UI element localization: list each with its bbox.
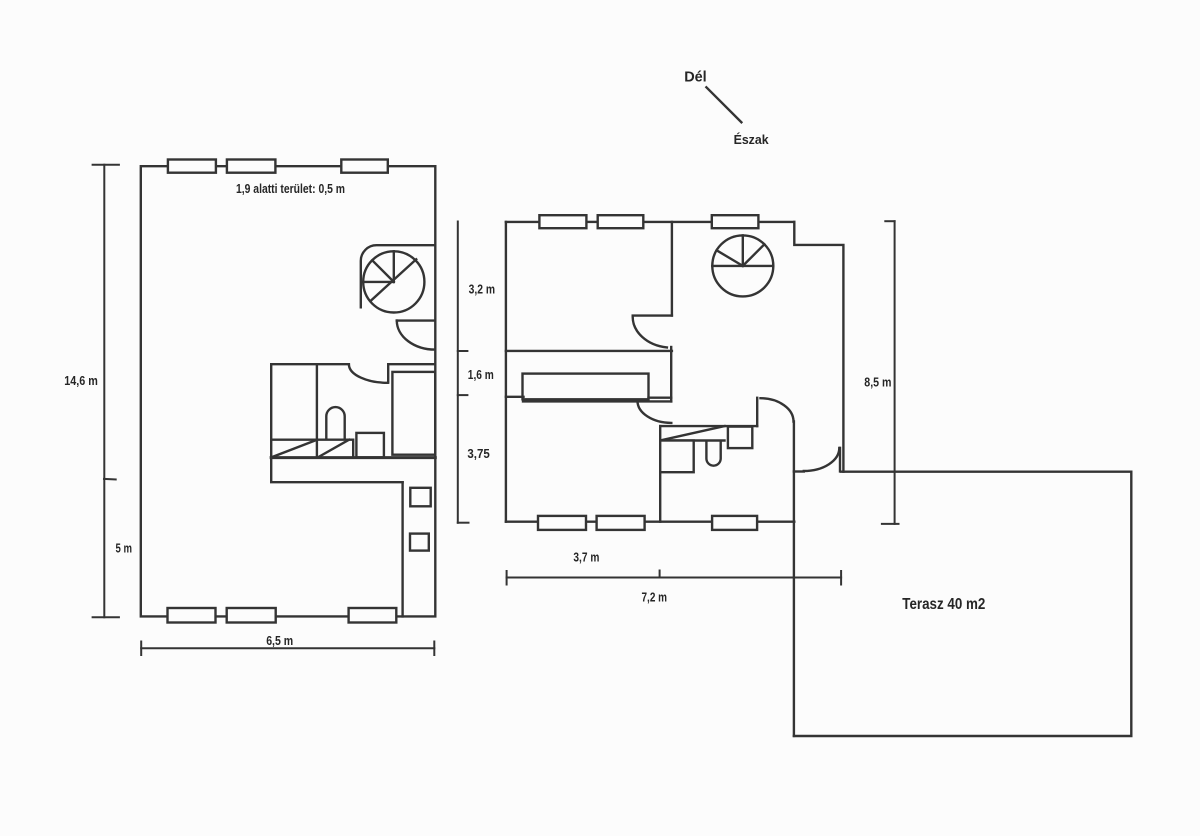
left plan outer wall [141, 166, 436, 616]
svg-text:7,2 m: 7,2 m [642, 591, 668, 605]
bathroom door leaf [387, 364, 389, 382]
dimension tick middle slanted [104, 478, 116, 481]
dimension line 6,5 m [141, 647, 434, 649]
dimension tick 7,2 right [840, 571, 842, 585]
terrace door stub [794, 470, 804, 472]
kitchen shelf line [660, 439, 724, 441]
hall wall horizontal [271, 481, 402, 483]
window top-right W1 [539, 215, 586, 228]
right plan top wall segment 1 [506, 221, 540, 223]
bathroom door arc [349, 365, 388, 383]
dimension line right of left plan [457, 222, 459, 523]
right plan top wall segment 2 [586, 221, 597, 223]
spiral stair circle upper plan [363, 251, 424, 312]
stair diameter diagonal [371, 259, 416, 300]
kitchen door arc [638, 401, 672, 423]
wardrobe long rectangle [523, 374, 649, 400]
svg-text:5 m: 5 m [116, 542, 133, 556]
bathroom top wall right segment [388, 363, 435, 365]
terrace door leaf [839, 448, 841, 472]
wall lower line bedroom top [523, 400, 671, 402]
compass line Dél-Észak [706, 87, 741, 122]
window bottom-right W1 [538, 516, 586, 530]
svg-text:Dél: Dél [684, 69, 707, 86]
interior wall vertical living-bedroom [670, 347, 672, 401]
wall stub left of wardrobe [506, 396, 524, 398]
dimension tick 8,5 bottom [882, 523, 899, 525]
window top-left W2 [227, 160, 276, 173]
stair spoke up-left [372, 260, 394, 282]
dimension tick 8,5 top [885, 220, 894, 222]
svg-text:Észak: Észak [734, 132, 770, 147]
stair enclosure wall upper plan [361, 245, 436, 307]
right wall long vertical [793, 422, 795, 736]
hall wall vertical [401, 482, 403, 616]
window top-right W3 [712, 215, 759, 228]
svg-text:3,75: 3,75 [467, 447, 489, 461]
stair spoke left [363, 281, 394, 283]
window bottom-left W6 [349, 608, 397, 623]
interior wall stub horizontal [633, 314, 672, 316]
right plan left wall [505, 222, 507, 522]
bathroom left wall [270, 364, 272, 482]
dimension tick 3,7 middle [659, 571, 661, 578]
dimension line 14,6 m [103, 165, 105, 618]
stair horizontal diameter lower plan [712, 265, 773, 267]
wall segment right of wardrobe [649, 397, 672, 399]
kitchen counter top [660, 425, 757, 427]
stair spoke up-right lower plan [743, 244, 765, 266]
svg-text:Terasz 40 m2: Terasz 40 m2 [902, 596, 985, 613]
bathroom bottom thick wall [271, 456, 435, 459]
kitchen stove [728, 427, 752, 449]
right plan top wall segment 3 [643, 221, 712, 223]
window bottom-right W3 [712, 516, 757, 530]
window bottom-left W4 [168, 608, 216, 623]
terrace door arc [804, 448, 840, 471]
stair spoke up-left lower plan [717, 250, 743, 266]
counter top edge [271, 440, 353, 458]
dimension tick 1,6 top [458, 350, 468, 352]
window top-left W3 [341, 160, 388, 173]
shower cabin [392, 372, 435, 455]
dimension tick 7,2 left [506, 571, 508, 585]
right plan top-right step wall [794, 222, 843, 472]
svg-text:1,9 alatti terület: 0,5 m: 1,9 alatti terület: 0,5 m [236, 182, 345, 196]
toilet [326, 407, 344, 439]
spiral stair circle lower plan [712, 235, 773, 296]
svg-text:1,6 m: 1,6 m [468, 368, 494, 382]
counter diagonal left [271, 440, 317, 458]
svg-text:3,7 m: 3,7 m [573, 551, 599, 565]
kitchen square [660, 441, 694, 473]
counter diagonal right [318, 440, 349, 458]
bottom wall lower plan [506, 521, 794, 523]
kitchen left wall [659, 426, 661, 522]
dimension tick 6,5 right [433, 642, 435, 656]
dimension line 8,5 m [894, 221, 896, 524]
dimension tick top left [93, 164, 119, 166]
kitchen sink [706, 441, 720, 466]
door arc below stair [397, 321, 436, 350]
closet square upper [410, 488, 430, 507]
window top-left W1 [168, 160, 216, 173]
kitchen counter diagonal [661, 426, 725, 440]
dimension tick 1,6 bottom [458, 394, 468, 396]
door stub below stair [397, 319, 436, 321]
mid wall horizontal lower plan [506, 350, 672, 352]
kitchen nook right wall [756, 398, 758, 426]
svg-text:8,5 m: 8,5 m [864, 376, 891, 390]
window top-right W2 [598, 215, 644, 228]
dimension tick 6,5 left [140, 642, 142, 656]
right plan top wall segment 4 [758, 221, 794, 223]
door arc top room [633, 316, 667, 347]
closet square lower [410, 534, 429, 551]
window bottom-right W2 [597, 516, 645, 530]
interior wall vertical lower plan [671, 222, 673, 316]
stair spoke up [393, 251, 395, 282]
svg-text:14,6 m: 14,6 m [64, 374, 98, 388]
stair spoke up lower plan [742, 235, 744, 266]
dimension tick bottom left [93, 616, 119, 618]
dimension line 7,2 m [507, 577, 841, 579]
terrace outline [794, 472, 1131, 736]
hall door arc to kitchen hall [761, 398, 794, 421]
svg-text:6,5 m: 6,5 m [266, 634, 293, 648]
dimension tick 3,75 bottom [458, 522, 469, 524]
window bottom-left W5 [227, 608, 276, 623]
svg-text:3,2 m: 3,2 m [469, 283, 495, 297]
bathroom top wall left segment [271, 363, 349, 365]
bathroom divider wall [316, 364, 318, 457]
washing machine [356, 433, 384, 458]
